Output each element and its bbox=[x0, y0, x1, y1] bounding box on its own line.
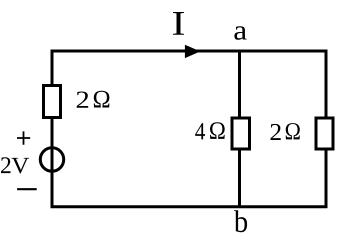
label 2V letter V bbox=[11, 158, 28, 174]
label 2ohm-left digit 2 bbox=[77, 91, 88, 107]
node a bbox=[234, 26, 246, 39]
label 4ohm digit 4 bbox=[195, 123, 205, 139]
wire bottom horizontal (node b rail) bbox=[51, 205, 328, 208]
minus sign bbox=[17, 188, 37, 190]
wire left vertical lower bbox=[51, 118, 54, 209]
label I bbox=[173, 12, 184, 35]
wire middle vertical lower bbox=[238, 150, 241, 208]
wire middle vertical upper bbox=[238, 51, 241, 118]
wire left vertical upper bbox=[51, 50, 54, 87]
label 2ohm-left omega bbox=[94, 91, 110, 108]
label 4ohm omega bbox=[210, 122, 225, 139]
label 2ohm-right omega bbox=[286, 123, 300, 139]
node b bbox=[234, 210, 247, 232]
resistor R2 4ohm middle bbox=[232, 118, 250, 149]
voltage source V1 circle bbox=[40, 148, 63, 171]
current arrow I bbox=[185, 45, 201, 58]
plus sign bbox=[17, 131, 30, 144]
resistor R1 2ohm left bbox=[44, 86, 61, 118]
label 2ohm-right digit 2 bbox=[271, 124, 281, 140]
wire right vertical upper bbox=[325, 50, 328, 119]
wire top horizontal (node a rail) bbox=[51, 50, 328, 53]
resistor R3 2ohm right bbox=[316, 118, 333, 149]
wire right vertical lower bbox=[325, 150, 328, 209]
label 2V digit 2 bbox=[1, 157, 10, 173]
